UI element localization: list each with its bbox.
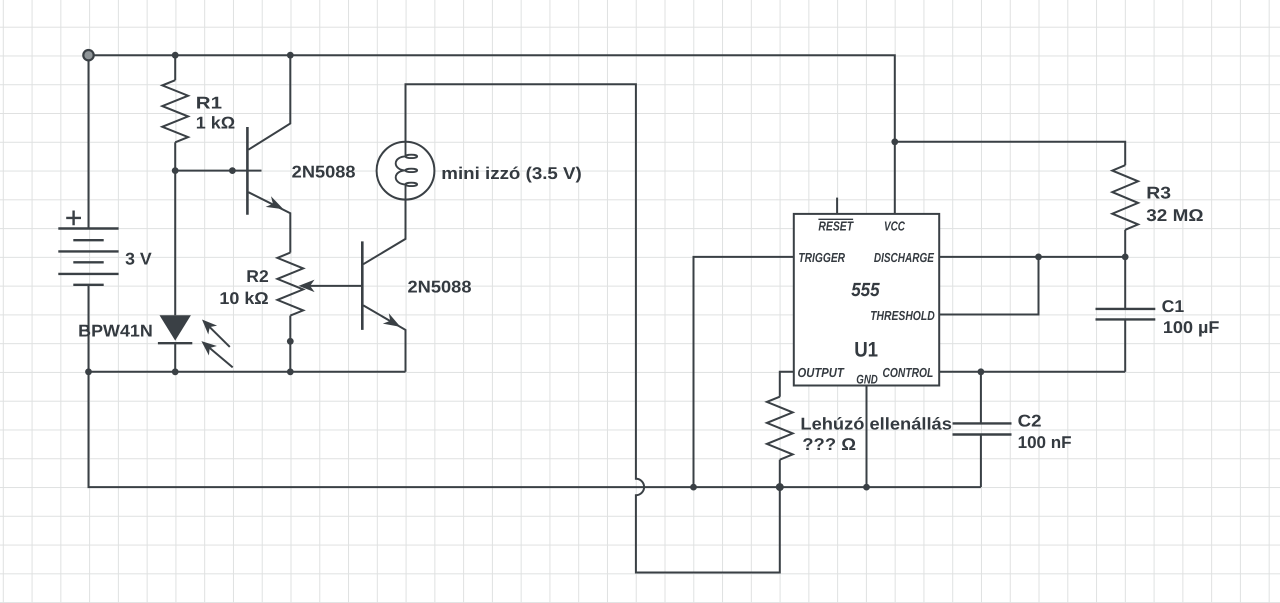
svg-text:mini izzó (3.5 V): mini izzó (3.5 V): [441, 164, 582, 183]
svg-text:3 V: 3 V: [125, 250, 152, 269]
svg-text:32 MΩ: 32 MΩ: [1146, 206, 1203, 225]
svg-text:OUTPUT: OUTPUT: [798, 365, 845, 380]
svg-text:2N5088: 2N5088: [408, 277, 472, 296]
svg-text:U1: U1: [854, 338, 878, 361]
svg-text:BPW41N: BPW41N: [78, 322, 153, 341]
svg-text:R2: R2: [246, 267, 268, 286]
svg-text:??? Ω: ??? Ω: [802, 435, 856, 454]
svg-text:1 kΩ: 1 kΩ: [196, 113, 235, 132]
svg-text:10 kΩ: 10 kΩ: [219, 289, 268, 308]
svg-text:CONTROL: CONTROL: [883, 365, 934, 380]
svg-text:C2: C2: [1018, 412, 1042, 431]
svg-text:2N5088: 2N5088: [292, 163, 356, 182]
svg-text:100 µF: 100 µF: [1163, 318, 1220, 337]
svg-text:Lehúzó ellenállás: Lehúzó ellenállás: [800, 415, 952, 434]
svg-text:R1: R1: [196, 93, 222, 112]
svg-text:VCC: VCC: [884, 218, 905, 233]
svg-text:GND: GND: [856, 373, 878, 387]
svg-text:R3: R3: [1146, 184, 1171, 203]
svg-text:RESET: RESET: [818, 218, 854, 233]
svg-text:555: 555: [851, 280, 880, 301]
svg-text:100 nF: 100 nF: [1018, 433, 1072, 452]
svg-text:TRIGGER: TRIGGER: [798, 250, 845, 265]
svg-text:THRESHOLD: THRESHOLD: [870, 308, 935, 323]
svg-text:DISCHARGE: DISCHARGE: [874, 250, 934, 265]
svg-text:C1: C1: [1162, 297, 1185, 316]
